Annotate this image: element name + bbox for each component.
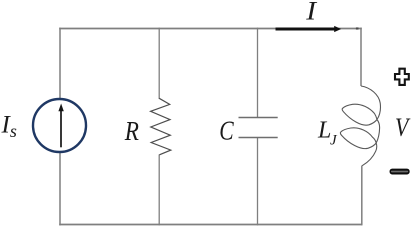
wire bottom horizontal	[59, 224, 362, 226]
capacitor C bottom plate	[239, 137, 278, 139]
svg-text:C: C	[219, 117, 234, 147]
svg-text:I: I	[305, 0, 318, 26]
wire resistor branch upper	[158, 28, 160, 99]
wire top horizontal	[59, 28, 362, 30]
wire right vertical lower	[361, 166, 363, 226]
wire capacitor branch lower	[257, 138, 259, 226]
current arrow I on top wire	[276, 26, 342, 32]
wire right vertical upper	[360, 28, 362, 86]
wire artifact dot near corner	[356, 27, 359, 29]
svg-text:R: R	[124, 117, 139, 146]
wire capacitor branch upper	[257, 28, 259, 118]
wire left vertical upper	[59, 28, 61, 99]
svg-text:LJ: LJ	[317, 117, 338, 148]
resistor R zigzag	[151, 98, 171, 155]
capacitor C top plate	[239, 117, 278, 119]
current source arrow	[58, 104, 63, 148]
current source Is circle	[33, 99, 86, 152]
wire left vertical lower	[59, 153, 61, 226]
wire resistor branch lower	[158, 155, 160, 226]
svg-text:V: V	[395, 115, 410, 143]
plus symbol	[395, 69, 409, 85]
svg-text:Is: Is	[1, 112, 17, 141]
inductor LJ coil	[340, 86, 380, 166]
